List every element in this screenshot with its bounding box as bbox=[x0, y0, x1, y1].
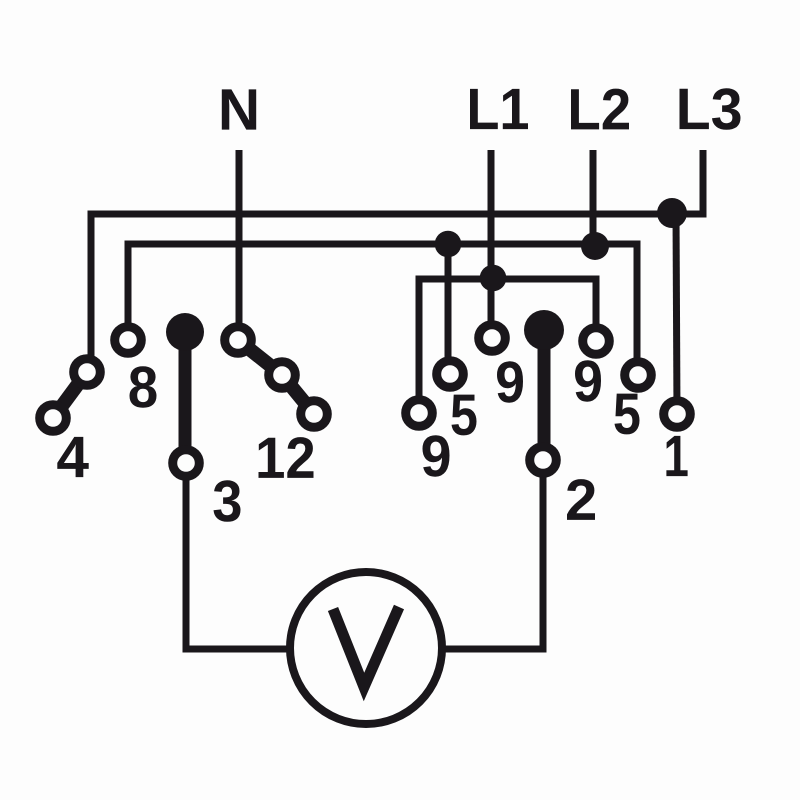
label 9 right bbox=[575, 360, 601, 401]
jumper bars contacts 12 bbox=[238, 340, 314, 414]
contact 12 middle bbox=[269, 362, 296, 389]
wire bus A branch to terminal 1 bbox=[676, 214, 677, 414]
label 12 bbox=[259, 437, 314, 478]
label 5 right bbox=[615, 394, 640, 435]
label 2 bbox=[567, 479, 595, 520]
label L3 bbox=[680, 88, 741, 130]
terminal 3 bbox=[173, 450, 200, 477]
label 4 bbox=[57, 437, 88, 477]
label L2 bbox=[571, 89, 629, 130]
junction dot bus B / contact 5 left bbox=[435, 231, 462, 258]
label 3 bbox=[214, 480, 241, 522]
junction dot bus B / L2 bbox=[581, 232, 609, 260]
contact 4 lower bbox=[40, 405, 67, 432]
wire terminal 2 to voltmeter bbox=[366, 468, 543, 649]
contact 5 right bbox=[625, 362, 652, 389]
wire bus B branch to left contact 5 bbox=[445, 244, 452, 374]
label 5 left bbox=[452, 395, 477, 436]
contact 9 upper left bbox=[479, 325, 506, 352]
label 1 bbox=[666, 436, 687, 476]
label 8 bbox=[130, 366, 157, 407]
contact 9 lower left bbox=[406, 400, 433, 427]
label 9 upper left bbox=[497, 361, 523, 402]
contact 12 upper bbox=[225, 327, 252, 354]
label 9 lower left bbox=[423, 435, 450, 476]
contact 8 bbox=[115, 327, 142, 354]
voltmeter V1 body bbox=[290, 572, 442, 724]
switch S1 wiper arm bbox=[179, 332, 192, 463]
switch S1 rotor bbox=[166, 313, 204, 351]
wire terminal 3 to voltmeter bbox=[186, 470, 366, 649]
switch S2 rotor bbox=[524, 310, 564, 350]
wire bus C joining contacts 9 bbox=[419, 279, 596, 413]
terminal 1 contact bbox=[664, 401, 691, 428]
contact 4 upper bbox=[74, 359, 101, 386]
jumper bar contacts 4 bbox=[53, 372, 87, 418]
label L1 bbox=[470, 89, 528, 129]
contact 12 lower bbox=[301, 401, 328, 428]
junction dot bus A / terminal 1 bbox=[657, 198, 687, 228]
wire N stub bbox=[236, 150, 243, 330]
contact 5 left bbox=[437, 361, 464, 388]
voltmeter V glyph bbox=[333, 607, 399, 687]
junction dot bus C / L1 bbox=[480, 265, 507, 292]
wire L1 drop bbox=[488, 150, 495, 338]
contact 9 right bbox=[583, 328, 610, 355]
wire L2 drop bbox=[590, 150, 597, 247]
switch S2 wiper arm bbox=[538, 330, 551, 460]
label N bbox=[222, 89, 256, 129]
terminal 2 bbox=[530, 447, 557, 474]
wire bus B from contact 8 to right contact 5 bbox=[128, 244, 637, 375]
wire L3 to bus A and left drop to contact 4 chain bbox=[91, 150, 703, 372]
